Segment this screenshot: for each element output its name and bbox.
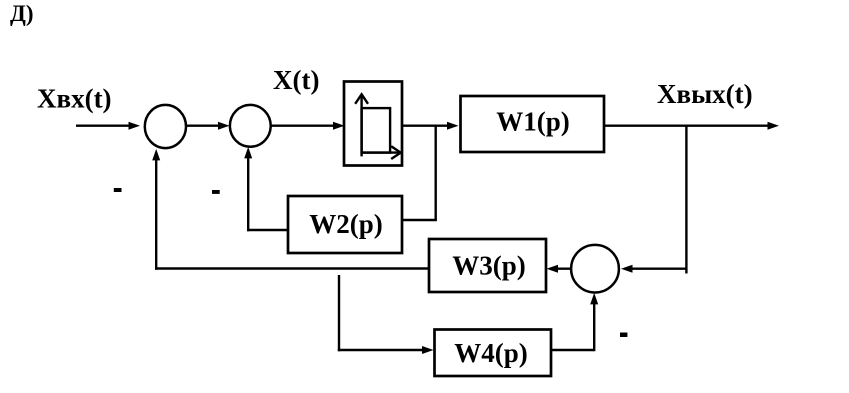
block W2(p) [288, 196, 402, 253]
wire into W4 left arrow [338, 346, 434, 354]
block W1(p) [461, 96, 605, 152]
block W3(p) [429, 239, 546, 292]
NL horizontal axis with open right arrow [362, 146, 401, 159]
svg-text:Хвых(t): Хвых(t) [657, 79, 753, 109]
wire junction down to W2 level [435, 125, 437, 221]
svg-text:W4(p): W4(p) [454, 338, 528, 368]
svg-text:W2(p): W2(p) [309, 209, 383, 239]
NL characteristic rectangle [362, 108, 391, 153]
summing junction S1 [145, 105, 186, 148]
svg-text:W3(p): W3(p) [452, 251, 526, 281]
wire pickoff down from output [685, 125, 687, 274]
wire into S3 right arrow [621, 265, 686, 273]
nonlinear element NL box [344, 82, 402, 166]
block W4(p) [435, 330, 552, 377]
wire W1 output arrow [604, 122, 779, 130]
summing junction S3 [571, 245, 619, 293]
svg-text:Д): Д) [10, 1, 33, 26]
wire W4 output right [551, 349, 594, 351]
wire up into S2 bottom arrow [244, 147, 252, 231]
svg-text:X(t): X(t) [273, 65, 319, 95]
svg-text:Хвх(t): Хвх(t) [37, 84, 112, 114]
svg-text:W1(p): W1(p) [496, 107, 570, 137]
NL vertical axis with open up arrow [355, 94, 368, 156]
summing junction S2 [230, 105, 271, 147]
wire long feedback left [155, 267, 429, 269]
wire up into S3 bottom arrow [590, 293, 598, 351]
wire S1 to S2 arrow [186, 122, 230, 130]
minus sign at S1 [114, 188, 122, 192]
minus sign at S3 [620, 333, 627, 338]
wire W4 pickoff down [338, 275, 340, 351]
wire S2 to nonlinear element arrow [271, 122, 345, 130]
wire S3 to W3 arrow [547, 265, 572, 273]
wire NL to W1 arrow [402, 122, 459, 130]
wire input arrow into summer S1 [76, 122, 140, 130]
wire W2 output left [247, 229, 288, 231]
minus sign at S2 [212, 190, 220, 194]
wire into W2 right side [402, 219, 437, 221]
wire up into S1 bottom arrow [152, 149, 160, 270]
